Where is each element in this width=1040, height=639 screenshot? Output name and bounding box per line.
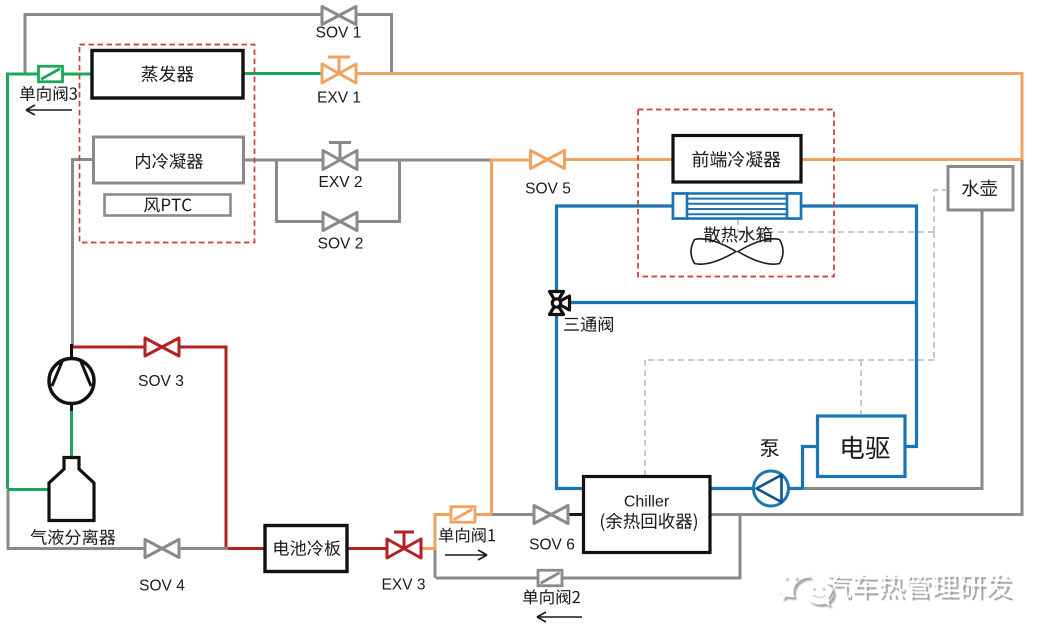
dashed vent horizontal mid (645, 359, 934, 361)
wire blue chiller to pump (710, 487, 753, 490)
svg-text:SOV 6: SOV 6 (529, 537, 575, 554)
label (余热回收器) (601, 513, 697, 531)
wire blue e-drive to pump riser (803, 447, 818, 489)
wire blue three-way valve right run (568, 301, 916, 304)
wire orange front condenser to right corner (801, 158, 1022, 161)
compressor (49, 344, 94, 411)
label 三通阀 (564, 316, 613, 332)
wire red compressor discharge (73, 347, 265, 549)
wire blue pump outlet (789, 487, 803, 490)
check valve 单向阀2 (538, 570, 562, 586)
label 水壶 (962, 180, 997, 197)
wire orange EXV1 outlet top run (356, 74, 1022, 161)
label 内冷凝器 (136, 153, 203, 169)
expansion valve EXV 2 (329, 143, 351, 161)
svg-text:SOV 2: SOV 2 (318, 236, 364, 253)
solenoid valve SOV 4 (145, 540, 179, 558)
svg-text:Chiller: Chiller (624, 494, 670, 511)
kettle box 水壶 (948, 167, 1013, 211)
solenoid valve SOV 5 (531, 151, 565, 169)
expansion valve EXV 3 body (387, 539, 421, 558)
radiator fan (691, 239, 783, 264)
expansion valve EXV 1 body (322, 64, 356, 83)
svg-text:EXV 1: EXV 1 (317, 90, 361, 107)
label 泵 (760, 439, 778, 457)
evaporator box 蒸发器 (92, 51, 243, 99)
gas-liquid separator 气液分离器 (49, 458, 94, 521)
watermark logo shadow (779, 573, 836, 609)
svg-text:EXV 3: EXV 3 (382, 577, 426, 594)
wire orange vertical drop to check valve 1 (490, 159, 493, 515)
solenoid valve SOV 2 (323, 213, 357, 231)
label 散热水箱 (704, 226, 772, 242)
label 单向阀2 (523, 589, 580, 604)
label 蒸发器 (141, 65, 193, 82)
wire gray low pressure return (8, 490, 228, 549)
wire red battery plate to EXV3 (347, 547, 388, 550)
wire gray EXV3 tee down (434, 548, 437, 578)
solenoid valve SOV 3 (145, 338, 179, 356)
wire orange EXV3 outlet riser (420, 515, 492, 549)
dashed vent to chiller top (644, 360, 646, 475)
svg-text:EXV 2: EXV 2 (319, 174, 363, 191)
solenoid valve SOV 6 (534, 506, 568, 524)
battery cold plate box 电池冷板 (265, 526, 347, 572)
wire blue radiator left to three-way valve (557, 206, 674, 293)
watermark text 汽车热管理研发 (825, 573, 1011, 598)
dashed vent up to kettle (934, 190, 946, 232)
pump 泵 (754, 471, 789, 506)
wire black SOV6 to chiller (568, 513, 583, 516)
wire green compressor to separator (70, 402, 73, 459)
label 风PTC (144, 198, 191, 213)
watermark text 汽车热管理研发 shadow (827, 576, 1013, 601)
solenoid valve SOV 1 (322, 7, 356, 25)
expansion valve EXV 2 body (323, 151, 357, 170)
chiller box (584, 477, 711, 553)
dashed vent horizontal to kettle drop (738, 231, 934, 233)
front condenser box 前端冷凝器 (673, 136, 801, 183)
dashed vent to e-drive top (860, 360, 862, 414)
label 电池冷板 (274, 540, 340, 556)
wire gray right edge riser (711, 160, 1022, 515)
label 单向阀1 (439, 527, 495, 542)
svg-text:SOV 4: SOV 4 (139, 578, 185, 595)
wire green separator inlet (8, 488, 51, 491)
wire gray check valve2 branch (436, 514, 740, 578)
dashed vent down right (933, 232, 935, 360)
label 电驱 (842, 436, 889, 459)
wire green suction line to check valve and evaporator (8, 74, 93, 489)
air PTC heater box 风PTC (105, 195, 231, 216)
wire blue radiator right to e-drive (801, 206, 917, 447)
expansion valve EXV 3 (394, 532, 414, 549)
e-drive box 电驱 (818, 416, 906, 477)
three-way valve 三通阀 (550, 292, 570, 315)
svg-text:SOV 5: SOV 5 (525, 181, 571, 198)
dashed front-end module box (638, 110, 834, 277)
wire green evaporator outlet (242, 72, 322, 75)
expansion valve EXV 1 (328, 57, 350, 74)
label 气液分离器 (31, 529, 116, 545)
flow arrow for 单向阀1 (445, 550, 487, 560)
check valve 单向阀1 (451, 507, 475, 523)
watermark logo face details (786, 578, 826, 598)
wire blue three-way valve to chiller (557, 314, 584, 489)
wire gray SOV1 bypass left+top (25, 15, 322, 76)
label 前端冷凝器 (692, 151, 780, 168)
dashed HVAC enclosure box (80, 45, 255, 243)
wire gray inner-condenser to compressor (73, 160, 94, 347)
radiator 散热水箱 (673, 194, 801, 219)
label 单向阀3 (20, 86, 77, 101)
wire gray EXV2 main line (243, 159, 490, 162)
svg-text:SOV 1: SOV 1 (316, 25, 362, 42)
wire orange SOV5 to front condenser (565, 158, 673, 161)
flow arrow for 单向阀3 (26, 105, 72, 115)
dashed vent radiator stub (737, 219, 739, 232)
wire gray SOV2 bypass loop (277, 160, 400, 222)
wire gray check valve1 to SOV6 (492, 513, 534, 516)
inner condenser box 内冷凝器 (94, 137, 244, 183)
wire gray kettle drop (800, 210, 982, 489)
wire orange junction to SOV5 (490, 159, 530, 162)
wire gray SOV1 bypass right drop (356, 15, 392, 73)
flow arrow for 单向阀2 (537, 612, 582, 622)
watermark logo (777, 571, 834, 607)
check valve 单向阀3 (39, 66, 63, 82)
svg-text:SOV 3: SOV 3 (138, 373, 184, 390)
